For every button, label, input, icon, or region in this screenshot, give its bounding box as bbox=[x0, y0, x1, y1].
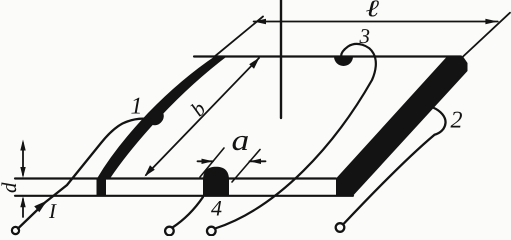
wire: current lead I to electrode 1 bbox=[18, 119, 149, 229]
terminal of lead 3 bbox=[207, 227, 216, 236]
dimension d upper line bbox=[22, 143, 24, 175]
electrode 3 (upper Hall contact) bbox=[334, 57, 353, 67]
label I bbox=[49, 204, 57, 218]
node: vertical centerline of plate bbox=[280, 0, 282, 118]
label 4 bbox=[211, 201, 221, 215]
dimension b lower arrowhead bbox=[145, 165, 155, 176]
solder blob on electrode 1 bbox=[145, 107, 167, 129]
label l bbox=[366, 0, 379, 16]
label a bbox=[233, 136, 248, 150]
dimension b line bbox=[146, 58, 259, 175]
current I arrowhead bbox=[34, 201, 47, 213]
wire: lead to electrode 2 with hook bbox=[344, 108, 446, 225]
dimension l left arrowhead bbox=[254, 19, 266, 25]
terminal of lead 2 bbox=[336, 223, 345, 232]
terminal of lead 4 bbox=[165, 227, 174, 236]
electrode 2 (right current contact bar) bbox=[336, 57, 468, 196]
dimension d lower line bbox=[22, 199, 24, 217]
label 3 bbox=[359, 29, 369, 43]
label b bbox=[190, 100, 207, 117]
dimension l right arrowhead bbox=[485, 19, 497, 25]
dimension a right extension line bbox=[232, 150, 260, 183]
label 1 bbox=[131, 98, 140, 114]
dimension a left arrowhead (points right) bbox=[202, 159, 214, 164]
wire: lead to electrode 4 bbox=[173, 197, 204, 228]
dimension a right segment bbox=[250, 160, 266, 162]
dimension a left segment bbox=[198, 160, 214, 162]
dimension l line bbox=[254, 21, 498, 23]
wire: plate back edge bbox=[194, 55, 461, 57]
dimension d upper line bottom arrowhead (down) bbox=[20, 167, 25, 178]
wire: plate front top edge bbox=[15, 177, 336, 179]
wire: plate front bottom edge bbox=[15, 195, 353, 197]
dimension d upper line top arrowhead (up) bbox=[20, 140, 25, 151]
dimension l left extension line bbox=[214, 17, 263, 58]
electrode 1 front face in plate edge bbox=[97, 179, 107, 196]
label 2 bbox=[451, 112, 462, 128]
dimension b upper arrowhead bbox=[249, 58, 259, 69]
electrode 1 (left current contact bar) bbox=[97, 56, 228, 179]
wire: lead to electrode 3 with loop bbox=[215, 44, 376, 229]
dimension l right extension line bbox=[462, 13, 510, 58]
dimension a left extension line bbox=[200, 148, 224, 177]
label d bbox=[1, 182, 16, 192]
dimension d lower arrowhead (up) bbox=[20, 196, 25, 207]
electrode 4 (lower Hall contact dome) bbox=[203, 167, 229, 196]
dimension a right arrowhead (points left) bbox=[250, 159, 262, 164]
terminal of lead 1 bbox=[12, 227, 19, 234]
